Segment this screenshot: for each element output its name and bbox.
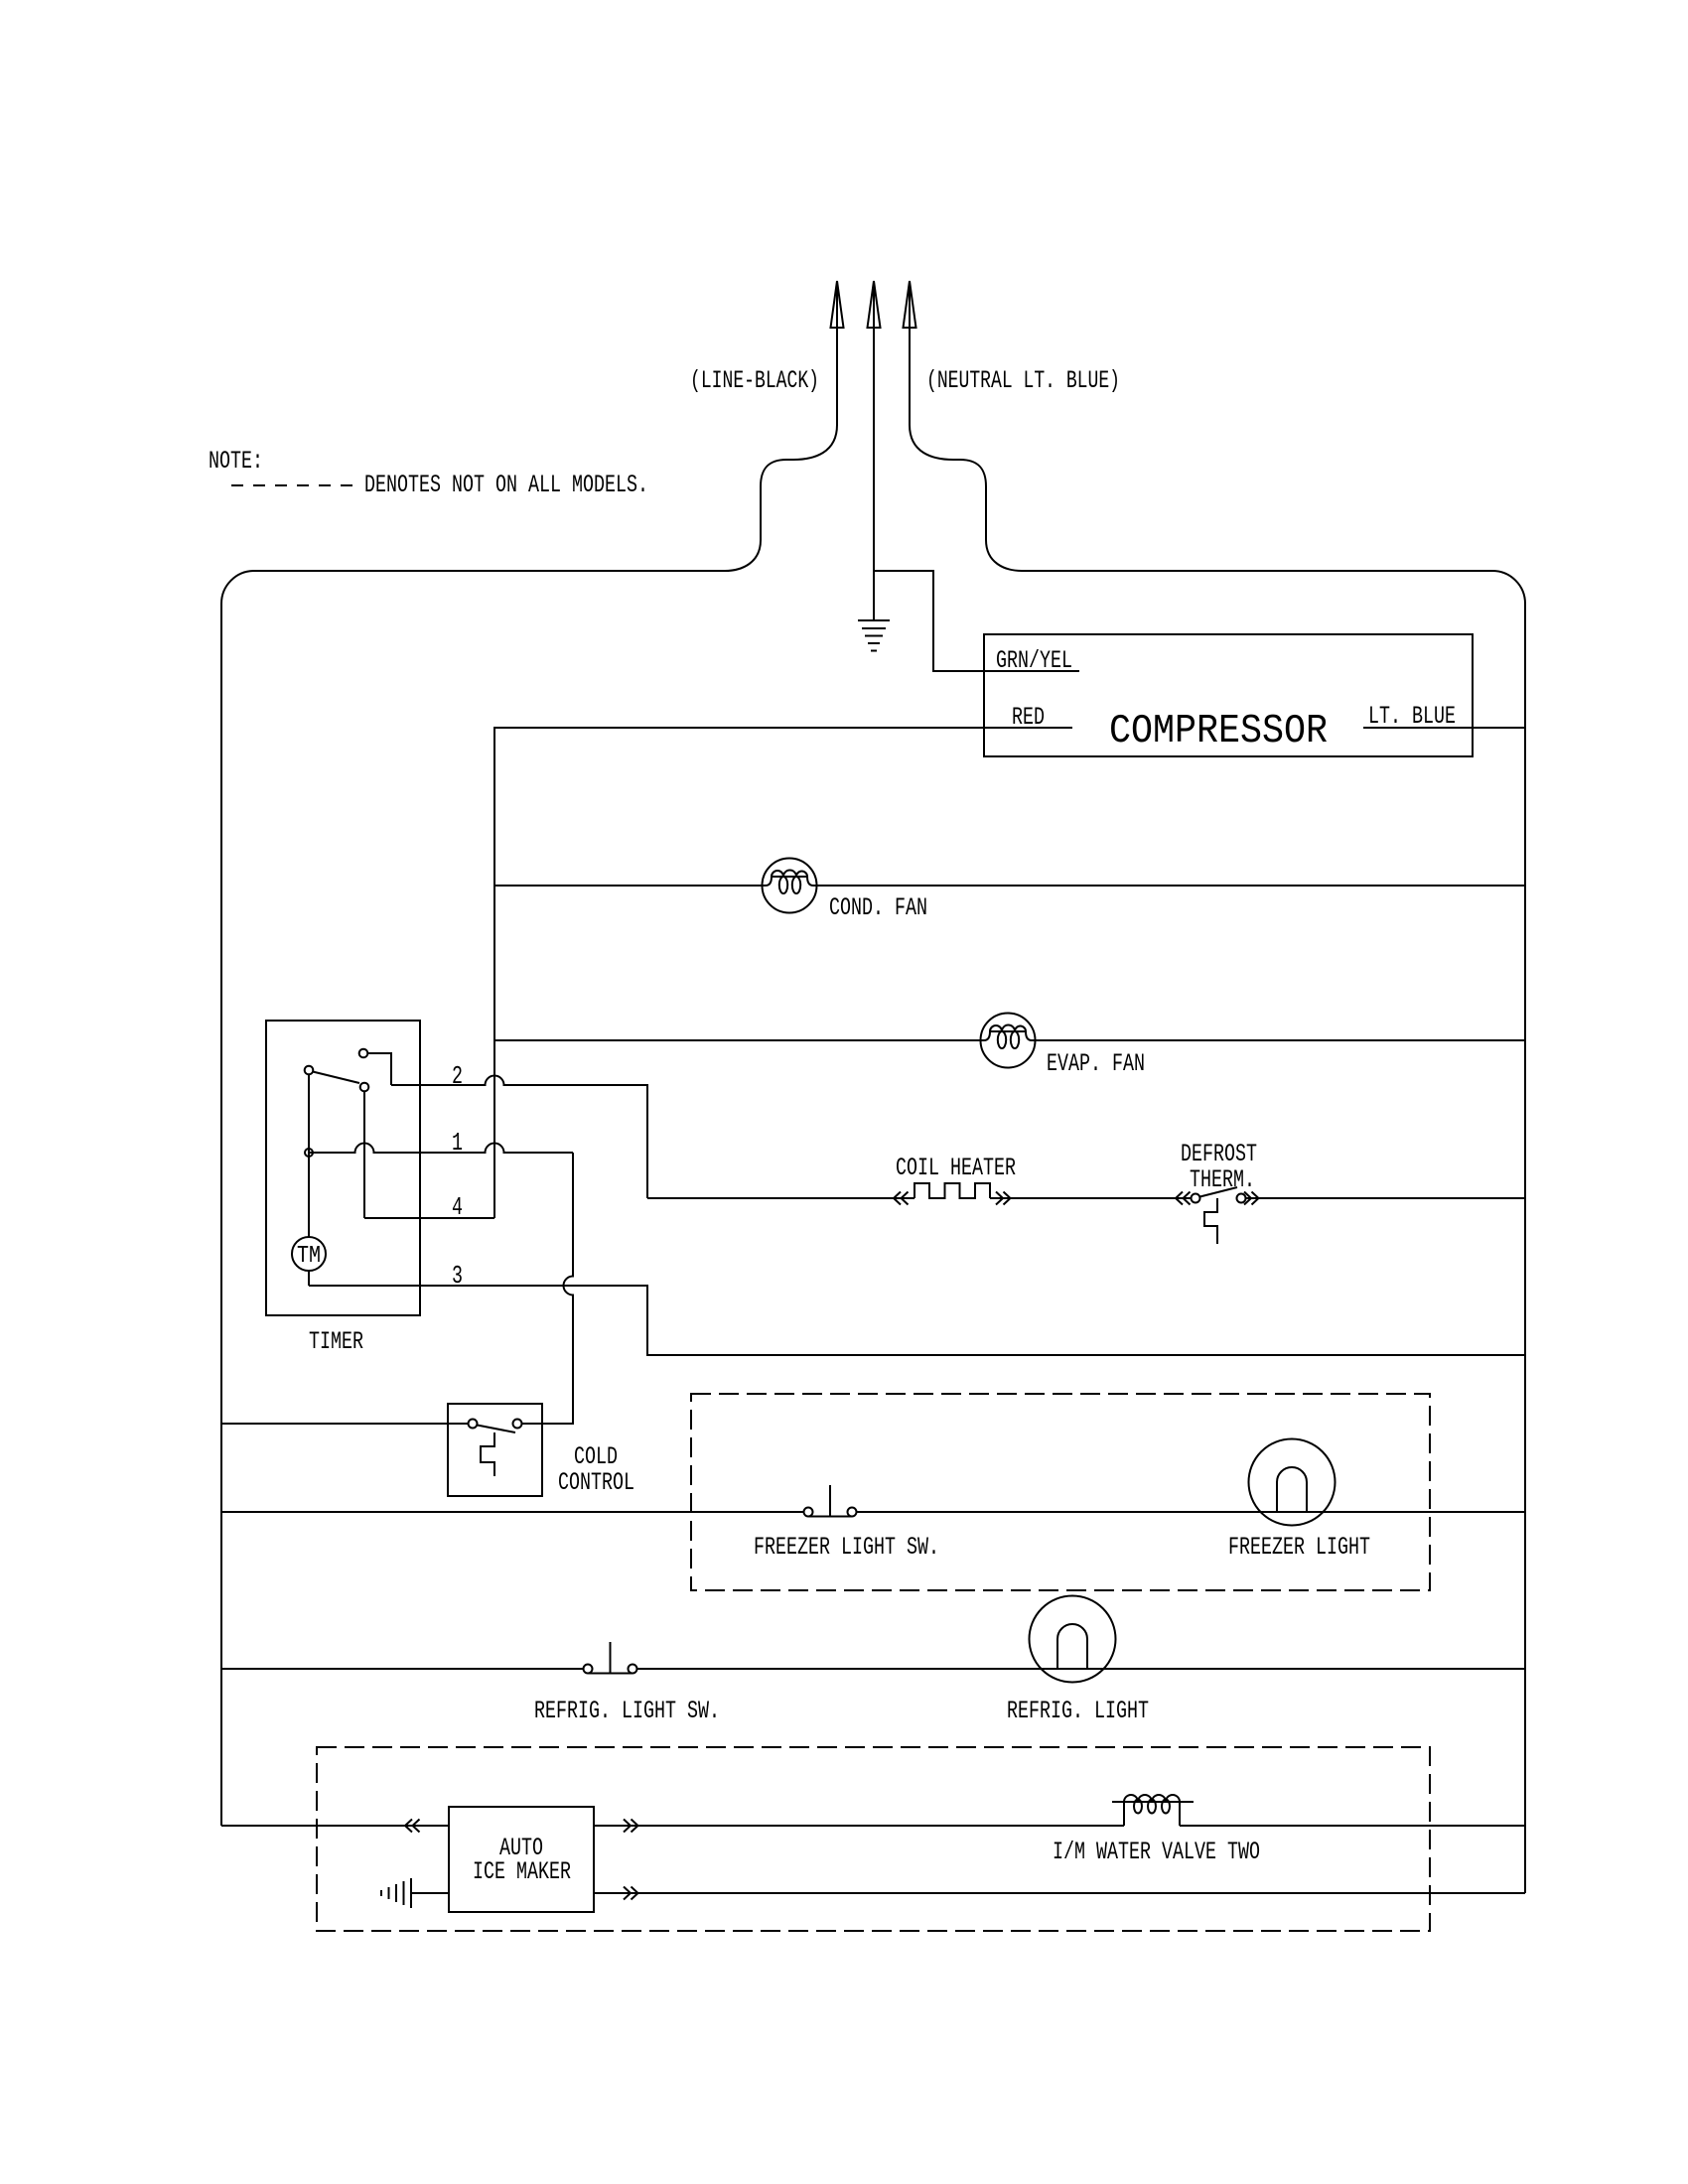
svg-text:DEFROST: DEFROST xyxy=(1181,1140,1257,1168)
timer motor TM xyxy=(292,1237,326,1271)
corner arc top-left of outline xyxy=(221,571,254,604)
svg-text:(LINE-BLACK): (LINE-BLACK) xyxy=(690,366,819,395)
defrost thermostat contact L xyxy=(1192,1194,1200,1203)
wire: pin 3 run to right bus xyxy=(309,1286,1525,1355)
wire: lt. blue lead xyxy=(1363,727,1525,729)
cold control sensing element xyxy=(481,1433,494,1476)
connector >> ice maker out 2 xyxy=(624,1887,638,1900)
wire: pin 2 run (jumps red bus, down to heater row) xyxy=(391,1076,647,1199)
svg-text:REFRIG. LIGHT: REFRIG. LIGHT xyxy=(1007,1697,1149,1725)
freezer light lamp xyxy=(1249,1439,1336,1526)
auto ice maker box xyxy=(449,1807,594,1912)
defrost thermostat contact R xyxy=(1237,1194,1246,1203)
ground symbol (ice maker, pointing left) xyxy=(381,1878,411,1908)
wire: top edge right segment xyxy=(1022,570,1492,572)
wire: contact A lead to pin 2 xyxy=(367,1053,391,1085)
freezer light switch xyxy=(804,1485,857,1517)
svg-text:GRN/YEL: GRN/YEL xyxy=(996,646,1072,675)
defrost thermostat blade xyxy=(1200,1187,1238,1197)
corner arc top-right of outline xyxy=(1492,571,1525,604)
timer pivot contact xyxy=(305,1066,314,1075)
svg-text:COMPRESSOR: COMPRESSOR xyxy=(1109,709,1328,754)
power arrow NEUTRAL xyxy=(904,281,916,328)
svg-text:COIL HEATER: COIL HEATER xyxy=(896,1154,1016,1182)
refrig light lamp xyxy=(1030,1596,1116,1683)
svg-text:DENOTES NOT ON ALL MODELS.: DENOTES NOT ON ALL MODELS. xyxy=(364,471,648,499)
timer box xyxy=(266,1021,420,1315)
wire: valve row to right bus xyxy=(1180,1825,1525,1827)
note dashed sample xyxy=(231,484,353,486)
cold control blade xyxy=(478,1426,516,1433)
wire: refrig light row right xyxy=(637,1668,1526,1670)
ground symbol (earth) xyxy=(858,619,890,621)
wire: red lead and red bus xyxy=(494,728,1072,1218)
connector << defrost in xyxy=(1176,1192,1191,1205)
wire: condenser fan row xyxy=(494,885,766,887)
svg-text:TM: TM xyxy=(297,1243,321,1270)
svg-text:LT. BLUE: LT. BLUE xyxy=(1368,702,1456,731)
wire: defrost row right segment xyxy=(1246,1197,1526,1199)
power arrow LINE-BLACK xyxy=(831,281,844,328)
power arrow GROUND lead xyxy=(868,281,881,328)
svg-text:COND. FAN: COND. FAN xyxy=(829,893,927,922)
wire: refrig light row left xyxy=(221,1668,584,1670)
svg-text:EVAP. FAN: EVAP. FAN xyxy=(1047,1049,1145,1078)
motor M1 COND. FAN xyxy=(763,859,817,913)
wire: ice maker feed row from left bus xyxy=(221,1825,449,1827)
connector << ice maker in xyxy=(405,1820,420,1833)
connector >> ice maker out 1 xyxy=(624,1820,638,1833)
svg-text:COLD: COLD xyxy=(574,1442,618,1471)
wire: ice maker output row 1 xyxy=(594,1825,1124,1827)
ice maker dashed box (not on all models) xyxy=(317,1747,1430,1931)
svg-text:FREEZER LIGHT: FREEZER LIGHT xyxy=(1228,1533,1370,1562)
svg-text:ICE MAKER: ICE MAKER xyxy=(473,1857,571,1886)
wire: top edge left segment xyxy=(254,570,725,572)
wire: cold control row from left bus xyxy=(221,1423,469,1425)
svg-text:CONTROL: CONTROL xyxy=(558,1468,634,1497)
wire: pivot to timer motor xyxy=(308,1074,310,1237)
cold control contact R xyxy=(513,1420,522,1429)
connector >> heater out xyxy=(996,1192,1011,1205)
cold control contact L xyxy=(469,1420,478,1429)
timer contact B xyxy=(360,1083,369,1092)
connector >> defrost out xyxy=(1244,1192,1259,1205)
wire: pin 4 run xyxy=(364,1217,494,1219)
svg-text:FREEZER LIGHT SW.: FREEZER LIGHT SW. xyxy=(754,1533,939,1562)
wire: evaporator fan row xyxy=(494,1039,984,1041)
freezer circuit dashed box (not on all models) xyxy=(691,1394,1430,1590)
wire: heater row left segment xyxy=(647,1197,914,1199)
timer switch blade xyxy=(313,1072,359,1084)
wire: grn/yel branch from ground lead to compressor xyxy=(874,571,1079,671)
refrig light switch xyxy=(584,1642,637,1674)
inductor I/M water valve coil xyxy=(1112,1795,1194,1826)
wire: right bus (outline right edge) xyxy=(1524,604,1526,1893)
wire: heater row middle segment xyxy=(990,1197,1192,1199)
wire: ice maker ground lead xyxy=(412,1892,449,1894)
cold control box xyxy=(448,1404,542,1496)
timer contact A (top) xyxy=(359,1049,368,1058)
wire: pin 1 drop to cold control (jumps pin 3 run) xyxy=(522,1153,574,1424)
timer junction node on pin 1 xyxy=(305,1149,313,1157)
defrost sensing element xyxy=(1204,1198,1217,1244)
svg-text:TIMER: TIMER xyxy=(309,1327,363,1356)
connector << heater in xyxy=(894,1192,909,1205)
svg-text:I/M WATER VALVE TWO: I/M WATER VALVE TWO xyxy=(1053,1838,1260,1866)
wire: contact B drop to pin 4 xyxy=(363,1091,365,1218)
wire: flare from left bus to LINE-BLACK arrow xyxy=(725,328,837,571)
svg-text:REFRIG. LIGHT SW.: REFRIG. LIGHT SW. xyxy=(534,1697,720,1725)
heater element COIL HEATER xyxy=(914,1183,990,1198)
wire: TM to pin 3 xyxy=(308,1271,310,1286)
svg-text:NOTE:: NOTE: xyxy=(209,447,263,476)
wire: freezer light row right xyxy=(857,1511,1526,1513)
svg-text:(NEUTRAL LT. BLUE): (NEUTRAL LT. BLUE) xyxy=(926,366,1120,395)
wire: pin 1 run (jumps contact B drop and red bus) xyxy=(309,1144,573,1154)
motor M2 EVAP. FAN xyxy=(981,1014,1036,1068)
wire: freezer light row left xyxy=(221,1511,804,1513)
svg-text:THERM.: THERM. xyxy=(1190,1165,1255,1194)
wire: flare from right bus to NEUTRAL arrow xyxy=(910,328,1022,571)
compressor box xyxy=(984,634,1473,756)
wire: left bus (outline left edge) xyxy=(220,604,222,1826)
wire: ice maker output row 2 to right bus xyxy=(594,1892,1525,1894)
svg-text:2: 2 xyxy=(452,1061,463,1091)
